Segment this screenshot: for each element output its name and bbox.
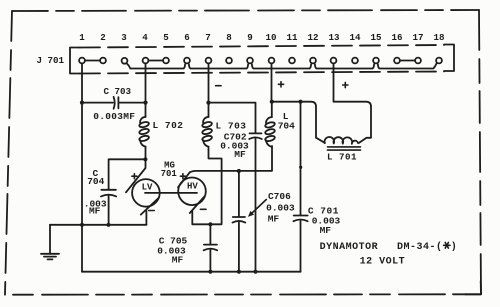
node junction C705 tap — [208, 222, 212, 226]
outer dashed border right — [479, 10, 481, 294]
svg-text:C 703: C 703 — [104, 86, 132, 97]
wire L702 to LV brush — [126, 147, 146, 193]
svg-text:13: 13 — [328, 32, 340, 43]
wire terminal 7 down to L703 — [208, 63, 210, 117]
terminal 10 — [265, 32, 276, 63]
svg-text:17: 17 — [412, 32, 423, 43]
inductor L703 — [202, 117, 213, 147]
motor-generator MG701 HV armature — [178, 178, 206, 206]
label L704 — [278, 111, 295, 132]
svg-text:5: 5 — [163, 32, 169, 43]
J701 bracket dashed line top — [80, 45, 444, 48]
capacitor C701 — [293, 102, 307, 272]
L701 core lines — [328, 147, 361, 150]
wire C704 branch — [109, 159, 146, 189]
svg-text:7: 7 — [205, 32, 211, 43]
svg-text:18: 18 — [433, 32, 445, 43]
svg-text:L 701: L 701 — [327, 152, 357, 163]
terminal 4 — [142, 32, 148, 63]
node junction C704 tap — [143, 157, 147, 161]
svg-text:704: 704 — [278, 120, 295, 131]
wire terminal 1 down left rail — [81, 63, 83, 271]
capacitor C706 — [233, 171, 246, 272]
svg-text:0.003: 0.003 — [266, 202, 295, 213]
value label C701 0.003 MF — [312, 215, 341, 235]
node junction C705 bottom — [208, 270, 212, 274]
terminal 11 — [286, 32, 298, 63]
wire link terminal 4 to 5 — [148, 60, 163, 62]
terminal 16 — [391, 32, 402, 63]
capacitor C703 — [82, 97, 146, 109]
wire link terminal 1 to 2 — [85, 60, 100, 62]
terminal 12 — [307, 32, 318, 63]
motor-generator MG701 LV armature — [132, 179, 160, 207]
node junction L704 top — [270, 100, 274, 104]
plus sign terminal 13 — [343, 82, 348, 87]
brush LV bottom — [141, 198, 159, 215]
wire terminal 10 down — [271, 63, 273, 101]
outer dashed border top — [12, 10, 479, 11]
wire terminal 13 down and over to L701 — [334, 63, 372, 142]
label C704 — [87, 168, 104, 187]
svg-text:16: 16 — [391, 32, 402, 43]
svg-text:MF: MF — [234, 149, 246, 160]
wire HV plus lead horizontal — [189, 146, 272, 173]
terminal 9 — [247, 32, 253, 63]
svg-text:DM-34-(: DM-34-( — [397, 241, 443, 253]
inductor L701 — [325, 137, 358, 144]
svg-text:1: 1 — [79, 32, 85, 43]
capacitor C705 — [204, 224, 218, 271]
minus sign LV — [149, 210, 155, 212]
outer dashed border bottom — [5, 293, 481, 295]
svg-text:12 VOLT: 12 VOLT — [360, 256, 406, 267]
inductor L702 — [139, 117, 150, 147]
svg-text:9: 9 — [247, 32, 253, 43]
node junction C706 tap — [237, 169, 241, 173]
terminal 3 — [121, 32, 127, 64]
svg-text:11: 11 — [286, 32, 298, 43]
svg-text:DYNAMOTOR: DYNAMOTOR — [320, 242, 379, 253]
plus sign HV — [180, 174, 185, 179]
wire HV minus lead to L703 — [192, 147, 221, 224]
svg-text:8: 8 — [226, 32, 232, 43]
terminal 13 — [328, 32, 340, 63]
svg-text:MF: MF — [320, 225, 332, 236]
brush HV top — [178, 172, 190, 187]
terminal 8 — [226, 32, 232, 63]
node junction C702 bottom — [253, 270, 257, 274]
wire left ground bus — [50, 224, 146, 226]
terminal 2 — [100, 32, 106, 63]
brush HV bottom — [190, 197, 205, 213]
svg-text:MF: MF — [172, 255, 184, 266]
svg-text:4: 4 — [142, 32, 148, 43]
svg-text:L 702: L 702 — [153, 120, 184, 131]
wire L704 top lead — [271, 102, 273, 118]
capacitor C702 — [249, 133, 262, 271]
value label C702 0.003 MF — [220, 141, 249, 161]
node junction C703 right — [143, 101, 147, 105]
node junction C701 top — [298, 100, 302, 104]
svg-text:15: 15 — [370, 32, 382, 43]
wire HV plus node horizontal — [272, 102, 325, 143]
svg-text:704: 704 — [87, 176, 104, 187]
terminal 18 — [433, 32, 445, 63]
svg-text:2: 2 — [100, 32, 106, 43]
J701 bracket left — [70, 48, 80, 74]
svg-text:6: 6 — [184, 32, 190, 43]
inductor L704 — [265, 117, 276, 147]
wire C702 branch — [209, 103, 256, 133]
J701 bracket dashed line bottom — [80, 72, 444, 74]
node junction C703 left — [80, 101, 84, 105]
node junction C704 bottom — [106, 223, 110, 227]
terminal 1 — [79, 32, 85, 63]
terminal 15 — [370, 32, 382, 63]
wire link terminal 16 to 17 — [400, 60, 415, 62]
label MG 701 — [161, 161, 178, 179]
outer dashed border bottom-right corner — [465, 281, 481, 294]
terminal 6 — [184, 32, 190, 63]
outer dashed border left — [5, 11, 12, 294]
node junction C706 bottom — [237, 270, 241, 274]
wire jumper bus under terminals 3 to 18 — [127, 63, 437, 68]
value label C705 0.003 MF — [157, 246, 186, 266]
svg-text:3: 3 — [121, 32, 127, 43]
svg-text:10: 10 — [265, 32, 276, 43]
ground symbol — [41, 225, 59, 260]
svg-text:MF: MF — [268, 213, 280, 224]
wire bottom ground bus — [82, 271, 301, 273]
label C706 with arrow — [248, 191, 295, 224]
wire LV minus lead — [145, 211, 147, 225]
plus sign LV — [132, 174, 137, 179]
capacitor C704 — [101, 190, 116, 225]
svg-text:L 703: L 703 — [216, 121, 247, 132]
svg-text:): ) — [451, 241, 457, 253]
svg-text:C706: C706 — [268, 191, 291, 202]
svg-text:MF: MF — [89, 206, 101, 217]
svg-text:LV: LV — [142, 182, 153, 192]
node junction small on C701 line — [299, 166, 302, 169]
node junction C702 tap — [206, 101, 210, 105]
svg-text:0.003MF: 0.003MF — [93, 111, 135, 122]
J701 bracket right — [444, 45, 454, 72]
value label C704 .003 MF — [84, 198, 107, 216]
node junction left rail at ground bus — [80, 223, 84, 227]
plus sign terminal 10 — [278, 82, 283, 87]
terminal 17 — [412, 32, 423, 63]
minus sign terminal 7 — [216, 85, 221, 87]
terminal 7 — [205, 32, 211, 63]
label DYNAMOTOR DM-34 — [320, 241, 457, 253]
terminal 14 — [349, 32, 361, 63]
svg-text:701: 701 — [161, 169, 178, 179]
svg-text:J 701: J 701 — [37, 55, 65, 66]
wire shaft between LV and HV — [145, 192, 197, 194]
minus sign HV — [200, 208, 206, 210]
wire terminal 4 down to L702 — [145, 63, 147, 117]
terminal 5 — [163, 32, 169, 63]
svg-text:14: 14 — [349, 32, 361, 43]
svg-text:12: 12 — [307, 32, 318, 43]
svg-text:HV: HV — [187, 181, 198, 191]
